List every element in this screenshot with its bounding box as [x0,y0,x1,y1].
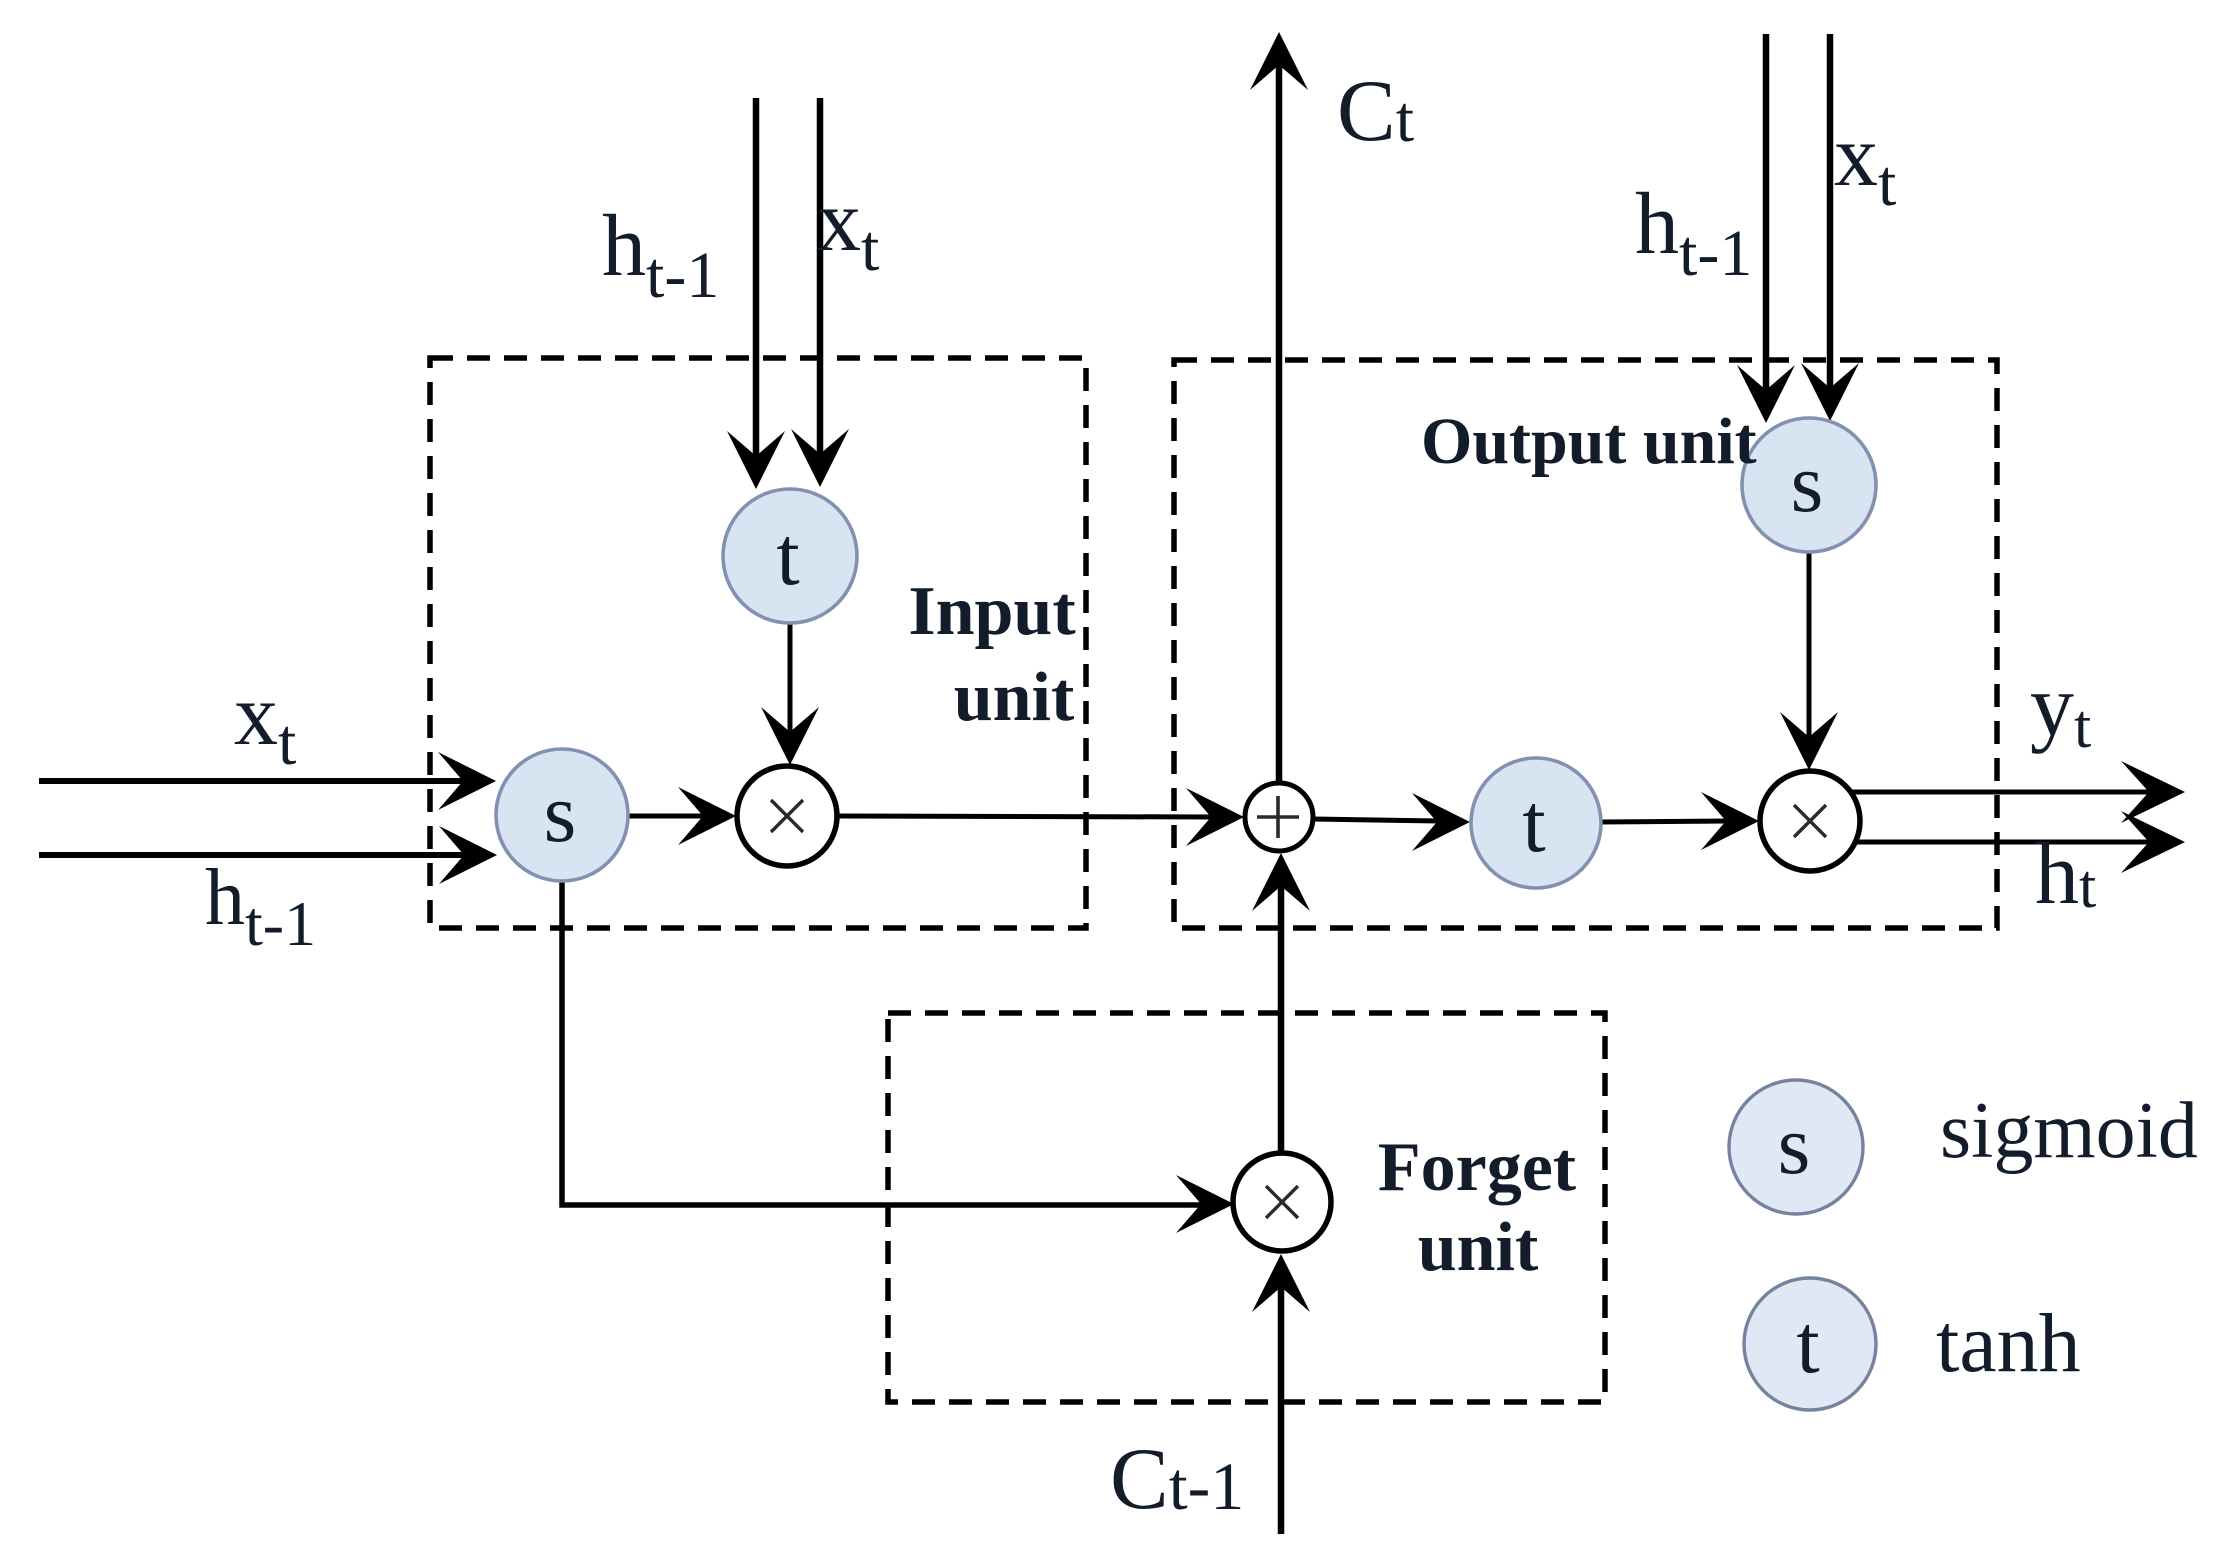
tanh t1 circle [723,489,857,623]
wire ht-1 top input [753,98,760,459]
wire xt left input [39,778,466,784]
wire ht-1 left input [39,852,467,858]
plus circle [1245,783,1313,851]
legend tanh circle [1744,1278,1876,1410]
wire Ct-1 up to forget-mul [1278,1284,1285,1534]
svg-text:Output unit: Output unit [1421,405,1757,478]
svg-text:Input: Input [908,573,1075,650]
svg-text:unit: unit [1418,1209,1539,1286]
mul1 circle [737,766,837,866]
svg-text:s: s [1778,1099,1811,1192]
wire s2 to mul2 [1807,552,1812,740]
wire xt top input [817,98,824,457]
svg-text:t: t [776,510,799,603]
sigmoid s2 circle [1742,418,1876,552]
wire s1 down-right to forget-mul [562,881,1204,1205]
dashed box Output unit [1174,360,1997,928]
svg-text:s: s [1791,437,1824,530]
wire mul2 to ht [1852,840,2152,845]
wire ht-1 top output [1763,34,1770,393]
wire mul2 to yt [1851,790,2152,795]
dashed box Input unit [430,358,1086,928]
svg-text:unit: unit [954,659,1075,736]
mul2 circle [1760,771,1860,871]
svg-text:s: s [544,767,577,860]
svg-text:tanh: tanh [1936,1297,2081,1390]
wire s1 to mul1 [628,814,706,819]
wire xt top output [1827,34,1834,391]
sigmoid s1 circle [496,749,628,881]
svg-text:Forget: Forget [1378,1129,1576,1206]
svg-text:sigmoid: sigmoid [1940,1087,2198,1175]
dashed box Forget unit [888,1013,1605,1402]
wire plus to t2 [1313,819,1440,821]
wire t2 to mul2 [1601,821,1729,822]
svg-text:t: t [1522,777,1545,870]
svg-text:t: t [1796,1298,1819,1391]
wire plus to Ct [1276,62,1283,783]
tanh t2 circle [1471,758,1601,888]
forget mul circle [1233,1153,1331,1251]
legend sigmoid circle [1729,1080,1863,1214]
wire forget-mul up to plus [1278,883,1285,1151]
wire mul1 to plus [837,816,1214,817]
wire t1 to mul1 [788,623,793,735]
